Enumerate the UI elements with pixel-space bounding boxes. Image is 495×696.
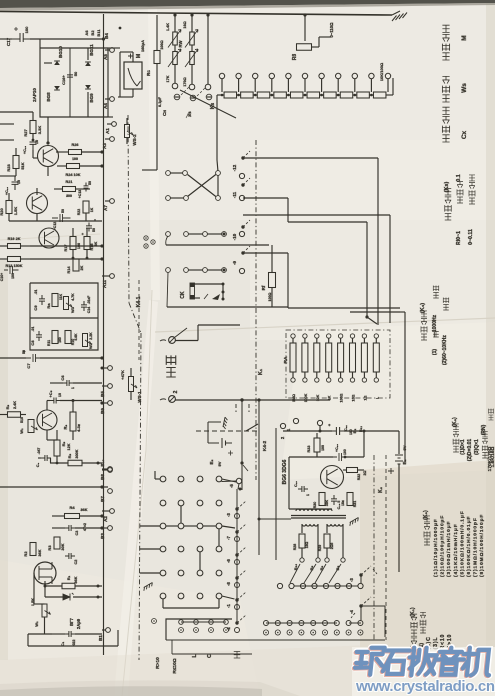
switch box RA dashed	[286, 330, 390, 398]
terminal -11	[241, 183, 244, 186]
wire amp1 net	[0, 175, 16, 177]
svg-text:17K: 17K	[166, 75, 170, 82]
svg-text:R33: R33	[307, 446, 311, 453]
wire diag B to row1	[290, 564, 300, 583]
svg-text:R21: R21	[66, 180, 73, 184]
svg-text:4.7K: 4.7K	[71, 293, 75, 301]
svg-text:(5)10KΩ/100mH/0.1μF: (5)10KΩ/100mH/0.1μF	[459, 510, 465, 577]
svg-text:100: 100	[11, 273, 15, 279]
svg-text:11K: 11K	[59, 293, 63, 300]
wire top border	[0, 12, 160, 14]
svg-text:1.6K/16Ω: 1.6K/16Ω	[490, 447, 495, 468]
capacitor C7	[26, 354, 41, 362]
wire -10 run	[243, 214, 390, 216]
transistor BG1	[37, 410, 57, 430]
potentiometer WS-2	[125, 125, 130, 138]
svg-text:R2: R2	[23, 551, 28, 557]
terminal A5	[110, 48, 115, 53]
svg-text:170Ω: 170Ω	[183, 77, 187, 86]
svg-text:K4-2: K4-2	[262, 440, 268, 451]
svg-text:C10+: C10+	[0, 273, 4, 281]
terminals bottom left group	[179, 620, 184, 625]
resistor R10	[65, 331, 71, 344]
svg-text:E₂: E₂	[209, 459, 214, 464]
capacitor C16	[67, 71, 73, 81]
svg-text:B11: B11	[96, 29, 101, 37]
resistor R18	[84, 237, 90, 250]
wire stage net	[50, 458, 52, 463]
terminal -4	[359, 604, 362, 607]
svg-text:B1: B1	[98, 635, 103, 641]
svg-text:R22: R22	[77, 209, 81, 215]
svg-text:(3)100Ω/1mH/10μF: (3)100Ω/1mH/10μF	[446, 521, 452, 577]
svg-text:300K: 300K	[75, 449, 79, 458]
wire -12 run	[243, 157, 378, 159]
transformer secondary	[302, 524, 306, 526]
svg-text:W₁: W₁	[19, 428, 24, 434]
svg-text:R19 2K: R19 2K	[8, 237, 21, 241]
wire bridge drop	[47, 117, 49, 143]
svg-text:RW: RW	[178, 41, 183, 48]
potentiometer W1b	[28, 420, 34, 433]
svg-text:2Ω: 2Ω	[363, 470, 367, 475]
terminal A7	[110, 199, 115, 204]
svg-text:.01κF: .01κF	[87, 296, 91, 304]
wire bridge box	[40, 47, 108, 49]
svg-text:CK: CK	[180, 291, 186, 299]
resistor R2	[30, 543, 36, 556]
svg-text:5.6K: 5.6K	[74, 333, 78, 341]
svg-text:M: M	[136, 54, 142, 58]
terminal B6	[325, 558, 329, 562]
capacitor C8	[36, 331, 42, 341]
wire fet bottom	[28, 633, 52, 635]
resistor R19	[8, 244, 21, 249]
svg-text:Cн: Cн	[162, 110, 167, 116]
svg-text:(1)D×1: (1)D×1	[460, 439, 466, 455]
wire osc cluster	[288, 457, 290, 509]
wire -9 run	[242, 252, 288, 254]
terminal -3b	[359, 573, 362, 576]
capacitor C5	[50, 398, 60, 404]
svg-text:100Ω: 100Ω	[268, 292, 272, 301]
capacitor C21	[332, 427, 344, 435]
resistor R4	[65, 514, 80, 519]
wire fet nets	[33, 573, 35, 604]
resistor R21	[63, 187, 76, 192]
resistor Rf	[271, 245, 273, 272]
switch K4 row2	[166, 268, 171, 273]
wire drop x242	[241, 400, 243, 490]
transistor BG6	[321, 466, 344, 489]
svg-text:Kѕ: Kѕ	[210, 103, 216, 110]
svg-text:R≤10Ω: R≤10Ω	[172, 658, 178, 673]
wire -11 run	[243, 197, 288, 199]
wire matrix row549	[140, 548, 160, 550]
capacitor C18	[331, 495, 337, 505]
wire K3 wiper	[180, 90, 236, 118]
svg-text:-047: -047	[37, 448, 41, 455]
svg-text:Wѕ: Wѕ	[461, 83, 468, 93]
svg-text:1K: 1K	[90, 207, 94, 212]
switch boundary K2	[373, 455, 375, 640]
svg-text:50: 50	[73, 71, 78, 76]
svg-text:R27: R27	[23, 129, 28, 137]
svg-text:.022: .022	[72, 640, 76, 647]
svg-text:A3: A3	[102, 143, 107, 149]
svg-text:WS-1: WS-1	[137, 391, 142, 403]
transistor BG4	[39, 228, 59, 248]
transistor BG7 fet	[34, 562, 56, 584]
switch box bottom	[166, 619, 232, 640]
diode zener D1	[63, 593, 74, 601]
svg-text:C: C	[207, 654, 213, 658]
wire matrix row479	[154, 471, 156, 479]
transistor BG3	[38, 146, 59, 167]
terminal B9	[108, 401, 113, 406]
terminal x368	[108, 366, 113, 371]
watermark kuangshi shouyinji	[352, 647, 495, 696]
svg-text:10Ω: 10Ω	[352, 394, 356, 401]
terminal B10b	[300, 558, 304, 562]
svg-text:160μA: 160μA	[140, 40, 145, 52]
wire bridge to bus	[108, 47, 120, 49]
terminal B11 osc	[317, 420, 322, 425]
svg-text:B3: B3	[100, 533, 105, 539]
svg-text:2Ω5: 2Ω5	[330, 543, 334, 550]
svg-text:R₅: R₅	[67, 453, 72, 458]
svg-text:100: 100	[343, 449, 347, 455]
wire zener net	[45, 596, 63, 598]
svg-text:+C₅: +C₅	[48, 390, 53, 397]
terminal B8b	[316, 558, 320, 562]
resistor R20	[6, 201, 12, 214]
svg-text:100: 100	[321, 445, 325, 451]
svg-text:R₁: R₁	[66, 575, 71, 580]
svg-text:C14: C14	[87, 307, 91, 313]
switch K3 dashes	[181, 87, 205, 96]
svg-text:10K/100Ω: 10K/100Ω	[379, 62, 384, 81]
svg-text:+C13: +C13	[78, 190, 82, 199]
svg-text:-8: -8	[226, 581, 231, 585]
terminal B1	[106, 628, 111, 633]
wire CK drop	[167, 272, 168, 307]
switch dash vert x236	[235, 404, 237, 412]
svg-text:WS-2: WS-2	[132, 134, 137, 146]
svg-text:B₁₁: B₁₁	[358, 426, 363, 433]
svg-text:100Ω: 100Ω	[340, 393, 344, 402]
svg-text:18κ: 18κ	[341, 500, 345, 506]
svg-text:10: 10	[58, 393, 62, 397]
svg-text:B7: B7	[100, 496, 105, 502]
svg-text:W2: W2	[88, 342, 93, 349]
ground matrix	[142, 583, 153, 591]
svg-text:E₁: E₁	[402, 459, 407, 464]
resistor R23	[13, 156, 19, 169]
wire E1 net	[398, 474, 400, 572]
resistor R14	[73, 259, 79, 271]
svg-text:A1: A1	[105, 128, 110, 134]
svg-text:(3)Q×1: (3)Q×1	[474, 439, 480, 455]
capacitor C20	[333, 453, 346, 461]
svg-text:B₂: B₂	[352, 428, 357, 433]
svg-text:B8: B8	[100, 474, 105, 480]
meter M 160uA	[124, 62, 142, 89]
svg-text:10K: 10K	[316, 394, 320, 401]
svg-text:36K: 36K	[38, 549, 42, 556]
terminals row y623 right	[264, 621, 269, 626]
svg-text:B4: B4	[104, 33, 109, 39]
svg-text:Rі0~1: Rі0~1	[456, 231, 462, 245]
capacitor C13	[84, 183, 89, 192]
svg-text:C9: C9	[33, 305, 38, 311]
svg-text:C6: C6	[60, 375, 65, 381]
resistor R29	[324, 534, 330, 548]
svg-text:2: 2	[173, 390, 179, 393]
svg-text:100: 100	[24, 26, 29, 33]
transformer primary	[296, 509, 300, 511]
wire matrix row596	[162, 599, 164, 608]
svg-text:R30: R30	[313, 502, 317, 509]
label celiangxuanze K1	[411, 654, 417, 660]
svg-text:A6: A6	[84, 30, 89, 36]
junction dots bus	[100, 150, 103, 153]
terminal -12	[241, 156, 244, 159]
svg-text:K₁: K₁	[258, 368, 264, 375]
svg-text:-11: -11	[232, 191, 237, 198]
svg-text:(RN): (RN)	[481, 424, 487, 435]
svg-text:R14: R14	[67, 266, 71, 274]
terminal -9	[241, 251, 244, 254]
svg-text:9V: 9V	[402, 445, 407, 450]
svg-text:www.crystalradio.cn: www.crystalradio.cn	[355, 678, 495, 695]
svg-text:(2)10Ω/100μH/100μF: (2)10Ω/100μH/100μF	[440, 515, 446, 577]
svg-text:A4: A4	[103, 103, 108, 109]
svg-text:-10: -10	[232, 233, 237, 240]
terminals row y586	[277, 583, 282, 588]
diode BG8	[54, 86, 60, 90]
wire y400	[175, 399, 330, 401]
capacitor C15	[30, 134, 37, 150]
svg-text:-4: -4	[349, 609, 354, 613]
svg-text:—1000Hz: —1000Hz	[432, 314, 438, 337]
svg-text:RА: RА	[283, 356, 289, 363]
svg-text:10: 10	[17, 180, 21, 184]
wire Ks left end	[217, 94, 222, 96]
svg-text:1: 1	[306, 494, 310, 496]
capacitor C19	[298, 486, 308, 492]
label guan	[234, 652, 241, 659]
svg-text:300: 300	[66, 194, 72, 198]
svg-text:9V: 9V	[217, 461, 222, 466]
switch dash horiz y431	[196, 430, 258, 432]
svg-text:R32: R32	[357, 474, 361, 481]
wire mid bus b	[30, 258, 102, 260]
svg-text:1.5K: 1.5K	[13, 207, 18, 216]
switch K1 matrix contacts	[160, 476, 166, 482]
resistor chain Ks	[224, 92, 237, 98]
svg-text:K₂: K₂	[378, 487, 384, 493]
resistor R1	[45, 585, 62, 587]
potentiometer RW1	[173, 32, 178, 45]
svg-text:12K: 12K	[67, 443, 71, 450]
svg-text:(7)1MΩ/10H/1000pF: (7)1MΩ/10H/1000pF	[473, 517, 479, 577]
capacitor C14	[81, 301, 87, 311]
terminal probe2	[169, 396, 176, 403]
resistor R8	[304, 15, 306, 41]
battery E1	[398, 431, 400, 454]
wire box bottom	[166, 639, 385, 641]
svg-text:C3: C3	[75, 531, 79, 536]
svg-text:16Ω: 16Ω	[183, 21, 187, 28]
wire crossover feed	[216, 160, 219, 171]
svg-text:47×2: 47×2	[83, 523, 87, 531]
svg-text:-3: -3	[226, 512, 231, 516]
svg-text:R₈: R₈	[61, 441, 66, 446]
svg-text:B₁₀: B₁₀	[100, 459, 105, 466]
svg-text:2AP10: 2AP10	[32, 88, 37, 102]
svg-text:50: 50	[88, 181, 92, 185]
resistor R26	[69, 150, 82, 155]
capacitor C11	[52, 214, 71, 222]
svg-text:R20: R20	[0, 208, 4, 216]
terminal B10	[108, 467, 113, 472]
wire long y487	[0, 486, 108, 488]
svg-text:510: 510	[20, 417, 24, 423]
terminal B7	[108, 489, 113, 494]
transistor BG2	[27, 193, 48, 214]
resistor bank RA	[291, 334, 295, 338]
svg-text:B5: B5	[100, 391, 105, 397]
capacitor C2	[65, 553, 75, 559]
svg-text:(Kѕ): (Kѕ)	[444, 181, 450, 192]
resistor R17	[70, 237, 76, 250]
label waijie chakong lingmindu pinghengzhishi	[442, 135, 449, 142]
resistor R30	[319, 493, 325, 506]
wire feedback box	[30, 283, 98, 350]
svg-text:0.1μF: 0.1μF	[158, 96, 162, 107]
svg-text:+C₂₀: +C₂₀	[335, 444, 339, 452]
svg-text:0~110Ω: 0~110Ω	[329, 22, 334, 38]
svg-text:R13 150K: R13 150K	[5, 264, 22, 268]
wire x367 diag	[367, 317, 377, 324]
terminal -5b	[236, 478, 241, 483]
svg-text:BG6 3DG6: BG6 3DG6	[282, 459, 288, 484]
svg-text:.01: .01	[34, 290, 38, 295]
svg-text:1: 1	[71, 387, 75, 389]
resistor R27	[30, 121, 36, 134]
svg-text:L: L	[192, 654, 198, 657]
potentiometer RW4	[190, 52, 195, 65]
svg-text:100Ω: 100Ω	[160, 40, 164, 49]
wire osc top	[283, 430, 332, 432]
svg-text:0.1: 0.1	[456, 174, 462, 181]
switch K3 contacts	[172, 83, 178, 89]
svg-text:C8: C8	[30, 340, 35, 346]
resistor R32	[347, 468, 358, 473]
svg-text:C2: C2	[74, 560, 78, 565]
svg-text:BG10: BG10	[58, 46, 63, 58]
resistor R31	[347, 493, 353, 506]
svg-text:(K₁): (K₁)	[410, 607, 416, 617]
svg-text:2K: 2K	[80, 265, 84, 270]
switch K1 column terminals	[235, 507, 238, 510]
svg-text:36K: 36K	[74, 576, 78, 583]
svg-text:-6: -6	[226, 558, 231, 562]
svg-text:-1: -1	[226, 603, 231, 607]
wire amp1 top	[0, 139, 14, 141]
svg-text:BГ7: BГ7	[69, 617, 74, 625]
svg-text:R24 10K: R24 10K	[66, 173, 81, 177]
jack CK	[190, 283, 195, 299]
wire osc mid	[289, 456, 333, 458]
svg-text:R11: R11	[47, 340, 51, 346]
svg-text:2Ар9: 2Ар9	[76, 618, 81, 629]
wire K4 feed	[166, 236, 168, 245]
svg-text:36K: 36K	[81, 508, 88, 512]
svg-text:B2: B2	[90, 30, 95, 36]
wire matrix row526	[140, 525, 160, 527]
svg-text:Rc: Rc	[146, 70, 151, 76]
capacitor C10a	[12, 176, 19, 190]
svg-text:Ra: Ra	[46, 303, 51, 309]
svg-text:W3: W3	[70, 306, 75, 313]
svg-text:(6)100KΩ/1H/0.01μF: (6)100KΩ/1H/0.01μF	[466, 516, 472, 577]
terminal -10	[241, 225, 244, 228]
svg-text:100: 100	[72, 157, 78, 161]
terminal A2	[110, 509, 115, 514]
svg-text:33K: 33K	[325, 499, 329, 506]
potentiometer RW3	[173, 52, 178, 65]
svg-text:2.4K: 2.4K	[13, 401, 17, 409]
wire C17 to bridge	[0, 38, 12, 40]
svg-text:-12: -12	[232, 164, 237, 171]
resistor R13	[8, 257, 21, 262]
svg-text:C16+: C16+	[61, 75, 66, 85]
switch boundary dash-dot left	[128, 115, 129, 303]
terminal A1	[112, 122, 117, 127]
wire C7 net	[0, 357, 26, 359]
battery E2	[208, 422, 232, 448]
wire Ks right end	[388, 94, 393, 96]
svg-text:M: M	[461, 35, 468, 40]
svg-text:+C₁₅: +C₁₅	[23, 146, 27, 155]
resistor R33	[314, 438, 320, 452]
svg-text:C₁₉: C₁₉	[294, 481, 298, 487]
switch boundary K1 dash-dot	[255, 140, 257, 480]
svg-text:(K₂): (K₂)	[452, 417, 458, 427]
wire amp2 net	[36, 188, 38, 195]
terminal A3	[110, 137, 115, 142]
ground transformer	[348, 518, 359, 526]
switch Ks contacts	[219, 73, 224, 78]
svg-text:R₉: R₉	[63, 424, 68, 429]
wire matrix row573	[140, 572, 160, 574]
svg-text:(1): (1)	[432, 349, 438, 355]
svg-text:1Ω: 1Ω	[363, 395, 367, 400]
switch boundary dash x140	[138, 280, 140, 360]
svg-text:R28: R28	[293, 544, 297, 551]
svg-text:R₆: R₆	[5, 404, 10, 409]
capacitor C17	[12, 33, 30, 42]
resistor R9	[70, 412, 76, 431]
svg-text:-7: -7	[226, 535, 231, 539]
capacitor C12	[86, 223, 92, 232]
svg-text:4-3к: 4-3к	[76, 424, 81, 432]
terminal R gt 10 dot	[152, 619, 157, 624]
svg-text:R>10: R>10	[155, 657, 161, 669]
capacitor C9	[39, 295, 45, 305]
